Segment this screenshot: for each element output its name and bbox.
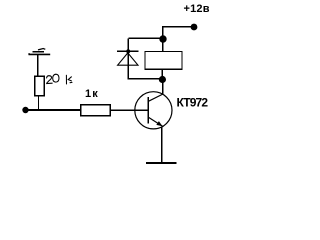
wire diode bottom to junction B (128, 78, 162, 80)
wire R1 to node (38, 96, 40, 111)
ground bottom bar (146, 162, 177, 164)
resistor R2 1k (81, 105, 111, 116)
diode VD1 cathode bar (117, 50, 139, 52)
svg-text:КТ972: КТ972 (177, 96, 209, 110)
relay K1 coil box (145, 52, 182, 70)
diode top junction dot (126, 49, 130, 53)
wire node to R2 (26, 109, 82, 111)
emitter arrowhead (156, 121, 162, 126)
diode VD1 triangle (118, 53, 138, 65)
emitter wire down (161, 127, 163, 163)
svg-text:+12в: +12в (184, 3, 210, 15)
wire relay bottom to junction B (161, 69, 163, 80)
junction node A dot (159, 35, 166, 42)
wire corner down to junction (162, 26, 164, 52)
wire junction to diode branch (128, 37, 163, 39)
resistor R1 20k (35, 76, 45, 96)
svg-text:1к: 1к (85, 88, 98, 100)
+12v terminal dot (191, 24, 198, 31)
label 20k (47, 74, 72, 84)
wire down to diode (127, 38, 129, 79)
transistor collector stroke (148, 94, 163, 101)
transistor Q1 KT972 circle (135, 92, 172, 129)
node input terminal dot (22, 107, 28, 113)
junction node B dot (159, 76, 166, 83)
wire +12v to corner (163, 26, 194, 28)
transistor emitter stroke (148, 117, 163, 127)
ground (top-left earth symbol) (29, 49, 50, 55)
wire R2 to base (110, 109, 149, 111)
transistor base bar (147, 97, 149, 124)
wire junction B to collector (162, 80, 164, 95)
wire ground to R1 (37, 55, 39, 77)
